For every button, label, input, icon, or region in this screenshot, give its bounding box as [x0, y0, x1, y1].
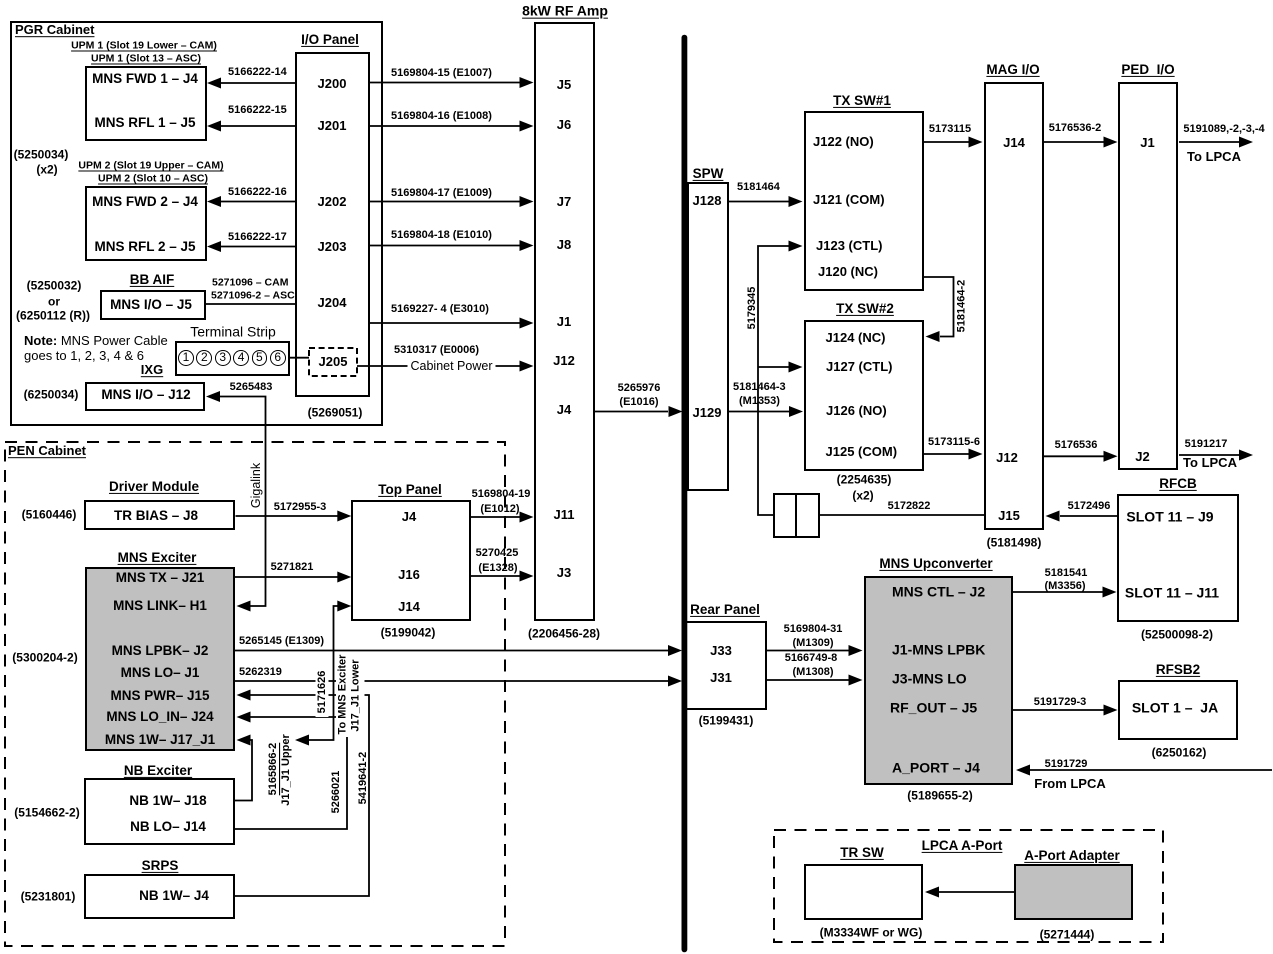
wire 5172822 [820, 514, 985, 516]
arrowhead 5265145 [668, 645, 682, 656]
arrowhead 5270425 [520, 571, 534, 582]
label pn M3334WF [820, 927, 923, 940]
wire 5166222-14 [221, 82, 295, 84]
box SPW [687, 182, 729, 491]
terminal circle 6 [270, 350, 286, 366]
label lbl 5191089 [1183, 124, 1264, 136]
label port J127 [826, 360, 892, 374]
label PGR Cabinet title [15, 23, 94, 37]
label port RF J7 [557, 195, 571, 209]
box PGR Cabinet [10, 21, 383, 426]
box splice connector [773, 493, 820, 538]
svg-text:5179345: 5179345 [746, 287, 758, 330]
label port J122 [813, 135, 874, 149]
label IXG port [101, 388, 190, 402]
label pn 6250162 [1152, 747, 1207, 760]
wire 5181464 [729, 201, 789, 203]
label 5266021 [330, 766, 342, 818]
box SRPS [84, 874, 235, 919]
arrowhead 5262319 [668, 676, 682, 687]
wire 5265976 [595, 411, 669, 413]
thick vertical separator bar [682, 35, 688, 953]
svg-text:5171626: 5171626 [316, 671, 328, 714]
label port J12m [996, 451, 1018, 465]
arrowhead 5169804-19 [520, 512, 534, 523]
label port RF J4 [557, 403, 571, 417]
label UPM1 rfl [94, 116, 195, 130]
label lbl 5191729 [1045, 759, 1088, 771]
label port TP J16 [398, 568, 420, 582]
label pn or [48, 295, 60, 308]
arrowhead 5171626 to exciter [295, 735, 309, 746]
label pn 6250034 [24, 389, 79, 402]
wire 5266021 [235, 717, 347, 829]
wire 5165866-2 [235, 740, 252, 801]
label lbl 5265145 [239, 636, 324, 648]
arrowhead 5265483 into IXG [206, 391, 220, 402]
label port NB 1W J18 [129, 794, 206, 808]
label lbl 5166749-8 [785, 653, 838, 665]
wire 5191217 [1179, 454, 1239, 456]
label pn 5231801 [21, 891, 76, 904]
arrowhead 5173115 [969, 137, 983, 148]
label IXG title [141, 363, 163, 377]
box MAG I/O [984, 82, 1044, 530]
label pn 52500098-2 [1141, 629, 1213, 642]
wire terminal-J205 [290, 357, 310, 359]
wire 5166222-16 [221, 201, 295, 203]
wire 5166222-17 [221, 246, 295, 248]
label pn 5199042 [381, 627, 436, 640]
svg-text:5266021: 5266021 [330, 771, 342, 814]
label port NB LO J14 [130, 820, 206, 834]
label lbl 5169804-18 [391, 230, 492, 242]
label pn 5181498 [987, 537, 1042, 550]
label lbl 5169804-19 [472, 489, 531, 501]
wire 5271096 BBAIF-J204 [206, 303, 296, 305]
label UPM2 hdr1 [78, 160, 223, 171]
label TX SW2 title [836, 302, 894, 316]
box PED I/O [1118, 82, 1178, 470]
arrowhead 5181541 [1103, 587, 1117, 598]
box Top Panel [351, 500, 471, 621]
label port RF J11 [554, 508, 575, 522]
box BB AIF [100, 290, 206, 321]
label lbl M1309 [793, 638, 834, 650]
label port SLOT11 J11 [1125, 586, 1219, 601]
box MNS Upconverter [864, 576, 1013, 785]
wire 5419641-2 [235, 695, 369, 896]
label port J120 [818, 265, 878, 279]
label To MNS Exciter [336, 652, 349, 737]
box Rear Panel [685, 621, 767, 711]
label lbl 5265483 [230, 382, 273, 394]
label port MNS LINK [113, 599, 207, 613]
arrowhead 5169804-18 [520, 240, 534, 251]
label port J121 [813, 193, 885, 207]
label port MNS CTL [892, 584, 985, 599]
label port J126 [826, 404, 887, 418]
label lbl From LPCA [1034, 777, 1106, 791]
label lbl M1353 [739, 396, 780, 408]
label NB Exciter title [124, 764, 192, 778]
arrowhead 5169804-16 [520, 121, 534, 132]
label lbl 5265976 [618, 383, 661, 395]
label lbl 5271096-2 ASC [211, 290, 295, 301]
label pn x2b [852, 489, 873, 502]
arrowhead 5310317 [520, 361, 534, 372]
label pn 2254635 [837, 474, 892, 487]
arrowhead 5191217 [1239, 450, 1253, 461]
label lbl 5166222-15 [228, 105, 287, 117]
label UPM2 rfl [94, 239, 195, 253]
svg-text:J17_J1 Upper: J17_J1 Upper [280, 734, 292, 806]
label lbl 5166222-14 [228, 67, 287, 79]
label PED IO title [1121, 63, 1174, 77]
label port RF J1 [557, 315, 571, 329]
arrowhead gigalink into MNS LINK [237, 601, 251, 612]
wire 5181541 [1013, 591, 1103, 593]
wire 5166749-8 [767, 679, 850, 681]
arrowhead 5271821 [337, 572, 351, 583]
wire 5191729-3 [1013, 709, 1104, 711]
label port RF J3 [557, 566, 571, 580]
label BB AIF port [110, 297, 192, 311]
label UPM1 hdr2 [91, 53, 201, 64]
label port J202 [318, 195, 347, 209]
wire 5166222-15 [221, 125, 295, 127]
label lbl 5191729-3 [1034, 697, 1087, 709]
label port RF J5 [557, 78, 571, 92]
arrowhead 5191729 [1016, 765, 1030, 776]
wire 5191089 [1179, 141, 1239, 143]
label port TP J4 [402, 510, 416, 524]
box MNS Exciter [85, 567, 235, 751]
box A-Port Adapter [1014, 864, 1133, 920]
wire 5169227-4 [370, 322, 521, 324]
terminal circle 1 [178, 350, 194, 366]
label port MNS TX [116, 571, 205, 585]
label lbl 5169804-17 [391, 188, 492, 200]
box TR SW [804, 864, 923, 920]
wire 5176536 [1044, 455, 1104, 457]
box RFCB [1117, 494, 1239, 622]
arrowhead 5171626 into TP J14 [337, 601, 351, 612]
label MAG IO title [986, 63, 1039, 77]
label lbl 5176536-2 [1049, 123, 1102, 135]
arrowhead 5169804-15 [520, 77, 534, 88]
label lbl 5271096 CAM [212, 277, 288, 288]
wire 5169804-31 [767, 650, 850, 652]
label port J15 [998, 509, 1020, 523]
wire 5181464-3 [729, 411, 789, 413]
label port TR BIAS [114, 508, 198, 522]
label port MNS LO [121, 665, 200, 679]
svg-text:Cabinet Power: Cabinet Power [411, 359, 493, 373]
box I/O Panel [295, 52, 370, 397]
label lbl 5181541 [1045, 568, 1088, 580]
label lbl 5262319 [239, 667, 282, 679]
box Driver Module [84, 500, 235, 530]
label port MNS LPBK [112, 644, 209, 658]
arrowhead 5166749-8 [849, 675, 863, 686]
label Top Panel title [378, 483, 442, 497]
label pn 5199431 [699, 715, 754, 728]
wire 5173115-6 [924, 453, 969, 455]
svg-text:5419641-2: 5419641-2 [357, 752, 369, 805]
label TR SW title [840, 846, 884, 860]
arrowhead 5419641-2 [237, 690, 251, 701]
label port RF J6 [557, 118, 571, 132]
wire 5179345 branch J127 [758, 366, 789, 368]
label lbl 5173115 [929, 124, 971, 136]
label TX SW1 title [833, 93, 891, 107]
label RF Amp title [522, 4, 608, 19]
label port J203 [318, 240, 347, 254]
label lbl 5172822 [888, 501, 931, 513]
label SRPS title [142, 859, 179, 873]
terminal circle 4 [233, 350, 249, 366]
box IXG [85, 382, 205, 411]
label lbl 5169804-16 [391, 111, 492, 123]
label lbl 5181464-3 [733, 382, 786, 394]
arrowhead adapter-trsw [925, 887, 939, 898]
wire adapter-trsw [939, 891, 1014, 893]
wire 5271821 [235, 576, 338, 578]
wire 5169804-18 [370, 245, 521, 247]
label A-Port Adapter title [1024, 849, 1120, 863]
wire 5169804-16 [370, 125, 521, 127]
label pn 5250032 [27, 280, 82, 293]
box 8kW RF Amp [534, 22, 595, 621]
box NB Exciter [84, 778, 235, 845]
box LPCA A-Port (dashed) [774, 830, 1163, 942]
label lbl E1012 [480, 504, 519, 516]
label port TP J14 [398, 600, 420, 614]
label pn 5160446 [22, 508, 77, 521]
arrowhead 5265976 [669, 406, 683, 417]
arrowhead 5169804-17 [520, 196, 534, 207]
arrowhead 5181464-3 [789, 406, 803, 417]
label port A_PORT [892, 761, 980, 776]
terminal circle 5 [252, 350, 268, 366]
box PEN Cabinet (dashed) [5, 442, 505, 946]
label port J33 [710, 644, 732, 658]
wire 5169804-19 [471, 516, 520, 518]
label IO Panel title [301, 33, 359, 47]
label lbl 5169227-4 [391, 304, 489, 316]
label port RF_OUT [890, 701, 977, 716]
label lbl 5181464 [737, 182, 780, 194]
wire 5169804-15 [370, 82, 521, 84]
label Upconverter title [879, 557, 992, 571]
box UPM 1 [85, 66, 207, 141]
label lbl 5310317 [394, 345, 479, 357]
box TX SW#1 [804, 111, 924, 291]
label lbl 5172955-3 [274, 502, 327, 514]
label lbl To LPCA 2 [1183, 456, 1237, 470]
svg-text:Gigalink: Gigalink [249, 462, 263, 508]
label UPM1 hdr1 [71, 40, 217, 51]
label Rear Panel title [690, 603, 760, 617]
label port J124 [826, 331, 886, 345]
label 5171626 [316, 667, 329, 717]
label port J201 [318, 119, 347, 133]
label Driver Module title [109, 480, 199, 494]
wire 5262319 [235, 680, 668, 682]
label lbl M3356 [1045, 581, 1086, 593]
arrowhead 5172955-3 [337, 511, 351, 522]
label lbl 5173115-6 [928, 437, 980, 449]
label port NB 1W J4 [139, 889, 209, 903]
label lbl 5191217 [1185, 439, 1228, 451]
svg-text:J17_J1 Lower: J17_J1 Lower [350, 659, 362, 732]
wire 5173115 [924, 141, 969, 143]
label UPM1 fwd [92, 72, 198, 86]
label port SLOT11 J9 [1126, 509, 1213, 524]
box J205 (dashed border) [309, 348, 357, 376]
label port MNS 1W [105, 733, 215, 747]
label PEN title [8, 444, 86, 458]
label pn 5271444 [1040, 929, 1095, 942]
label pn 2206456-28 [528, 627, 600, 640]
box TX SW#2 [804, 320, 924, 471]
label lbl 5271821 [271, 562, 314, 574]
arrowhead 5166222-17 [207, 241, 221, 252]
label lbl 5270425 [476, 548, 519, 560]
label port J200 [318, 77, 347, 91]
label port J204 [318, 296, 347, 310]
label lbl To LPCA 1 [1187, 150, 1241, 164]
arrowhead 5181464-2 [926, 331, 940, 342]
wire 5169804-17 [370, 201, 521, 203]
label note line2 [24, 349, 144, 363]
arrowhead 5266021 [237, 712, 251, 723]
wire 5310317 cabinet power [357, 365, 520, 367]
label port J128 [693, 194, 722, 208]
terminal circle 3 [215, 350, 231, 366]
label port MNS LO_IN [106, 710, 213, 724]
label port J3-MNS LO [892, 672, 967, 687]
wire 5172955-3 [236, 515, 339, 517]
wire 5265483 + Gigalink [220, 397, 266, 607]
arrowhead 5165866-2 [237, 735, 251, 746]
label port PED J1 [1140, 136, 1154, 150]
label port MNS PWR [110, 688, 209, 702]
wire 5179345 chain [758, 246, 789, 515]
arrowhead 5166222-16 [207, 196, 221, 207]
label MNS Exciter title [118, 551, 197, 565]
label port J14 [1003, 136, 1025, 150]
arrowhead 5191089 [1239, 137, 1253, 148]
label RFSB2 title [1156, 663, 1200, 677]
arrowhead 5176536 [1104, 451, 1118, 462]
label lbl 5169804-15 [391, 68, 492, 80]
label port RF J12 [553, 354, 575, 368]
arrowhead 5181464 [789, 196, 803, 207]
arrowhead 5179345 into J123 [789, 241, 803, 252]
label pn 5250034 [14, 149, 69, 162]
wire 5191729 [1030, 769, 1272, 771]
label port J129 [693, 406, 722, 420]
label lbl M1308 [793, 667, 834, 679]
label Cabinet Power [408, 359, 496, 373]
wire 5172496 [1060, 515, 1118, 517]
arrowhead 5169804-31 [849, 645, 863, 656]
box UPM 2 [85, 186, 207, 261]
label lbl 5166222-16 [228, 187, 287, 199]
label J17_J1 Lower [347, 657, 365, 735]
box RFSB2 [1118, 680, 1238, 740]
label port J123 [816, 239, 882, 253]
label port RF J8 [557, 238, 571, 252]
label port J205 [319, 355, 348, 369]
arrowhead 5173115-6 [969, 449, 983, 460]
label UPM2 fwd [92, 195, 198, 209]
label lbl 5169804-31 [784, 624, 843, 636]
splice divider [795, 493, 797, 538]
svg-text:5181464-2: 5181464-2 [956, 280, 968, 333]
wire 5270425 [471, 575, 520, 577]
svg-text:5165866-2: 5165866-2 [267, 743, 279, 796]
label lbl 5166222-17 [228, 232, 287, 244]
label lbl 5172496 [1068, 501, 1111, 513]
label port PED J2 [1135, 450, 1149, 464]
label port J125 [826, 445, 898, 459]
label UPM2 hdr2 [98, 173, 208, 184]
wire 5171626 [309, 606, 338, 740]
label pn 5269051 [308, 407, 363, 420]
arrowhead 5166222-15 [207, 121, 221, 132]
label pn 6250112 [16, 310, 90, 323]
box J205 (dashed) [309, 348, 357, 376]
label lbl E1328 [478, 563, 517, 575]
box Terminal Strip [175, 341, 290, 376]
label BB AIF title [130, 273, 175, 287]
label lbl 5176536 [1055, 440, 1098, 452]
label lbl E1016 [619, 397, 658, 409]
arrowhead 5179345 into J127 [789, 362, 803, 373]
label terminal strip title [190, 325, 276, 340]
label pn 5300204-2 [12, 652, 77, 665]
label pn x2 [36, 164, 57, 177]
wire 5181464-2 [924, 277, 954, 337]
label port J1-MNS LPBK [892, 643, 985, 658]
label SPW title [693, 167, 724, 181]
arrowhead 5169227-4 [520, 318, 534, 329]
label note line1 [24, 334, 168, 348]
wire 5176536-2 [1044, 141, 1104, 143]
arrowhead 5166222-14 [207, 78, 221, 89]
wire 5265145 [235, 650, 668, 652]
label RFCB title [1159, 477, 1197, 491]
arrowhead 5191729-3 [1104, 705, 1118, 716]
arrowhead 5176536-2 [1104, 137, 1118, 148]
label pn 5189655-2 [907, 790, 972, 803]
terminal circle 2 [196, 350, 212, 366]
label port J31 [710, 671, 732, 685]
label pn 5154662-2 [14, 807, 79, 820]
arrowhead 5172496 [1046, 511, 1060, 522]
label LPCA title [922, 839, 1003, 853]
label port SLOT1 JA [1132, 701, 1218, 716]
